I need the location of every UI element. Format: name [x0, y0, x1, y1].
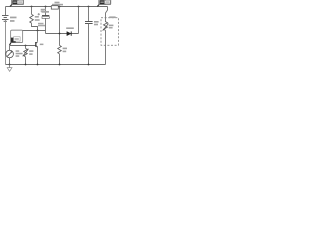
C2 value label	[94, 21, 99, 25]
capacitor C1 electrolytic plus sign	[38, 13, 40, 15]
wire R3 bottom lead	[59, 54, 61, 65]
wire collector drop	[37, 31, 39, 42]
ground	[7, 65, 12, 72]
capacitor C1	[42, 16, 49, 19]
wire trimmer top lead	[25, 46, 27, 49]
trimmer RV1	[23, 48, 29, 56]
resistor R2 (box style on bus)	[51, 6, 58, 9]
wire C2 bottom lead	[88, 24, 90, 65]
node junction wireB x R3	[59, 33, 61, 35]
wire C2 top lead	[88, 7, 90, 22]
node junction trimmer top	[25, 45, 27, 47]
label box MIC (value label with dark tag)	[10, 30, 23, 45]
text under bus left of C1	[41, 9, 46, 12]
node junction diode net right	[78, 6, 80, 8]
R3 value label	[63, 48, 67, 53]
wire C1 top lead	[45, 7, 47, 16]
photoresistor LDR1	[103, 22, 109, 31]
battery B1	[2, 16, 9, 22]
wire R3 vertical net	[59, 7, 61, 46]
wire R1 bottom lead	[32, 23, 38, 30]
LDR1 value label	[109, 25, 114, 27]
wire emitter down	[37, 47, 39, 64]
node junction C2 top	[88, 6, 90, 8]
node junction R1 top	[31, 6, 33, 8]
text label above wire A	[38, 23, 45, 27]
wire base	[10, 45, 36, 47]
node junction C1 top	[45, 6, 47, 8]
Q1 label	[40, 44, 44, 46]
net flag top-right	[97, 0, 111, 7]
node junction R3 top	[59, 6, 61, 8]
wire right riser from bus	[106, 7, 108, 23]
resistor R3	[58, 45, 62, 53]
node junction emitter bottom	[37, 64, 39, 66]
node junction C2 bottom	[88, 64, 90, 66]
wire B diode net	[46, 33, 79, 35]
R1 value label	[35, 16, 40, 21]
R2 labels above	[52, 2, 63, 6]
wire R1 top lead	[31, 7, 33, 15]
wire A collector net	[23, 30, 46, 32]
LDR1 name label	[109, 16, 115, 18]
wire left rail from bus to battery	[5, 7, 7, 16]
wire LDR bottom lead to bus	[105, 30, 107, 64]
microphone MIC1	[6, 46, 14, 58]
capacitor C2	[85, 22, 93, 24]
wire battery negative down left rail	[5, 20, 7, 65]
transistor Q1	[36, 42, 38, 48]
D1 value label	[66, 27, 74, 29]
net flag VCC top-left	[10, 0, 24, 7]
node junction R3 bottom	[59, 64, 61, 66]
wire C1 bottom lead down to wire B	[45, 18, 47, 33]
battery value label	[10, 17, 17, 22]
node junction collector	[37, 30, 39, 32]
wire top bus	[6, 6, 108, 8]
node junction trimmer bottom	[25, 64, 27, 66]
wire mic bottom lead	[9, 58, 11, 65]
C1 value label	[42, 11, 50, 13]
MIC1 text labels	[16, 50, 23, 57]
wire bottom bus	[6, 64, 106, 66]
diode D1	[67, 31, 71, 35]
node junction ground	[9, 64, 11, 66]
wire diode net riser	[78, 7, 80, 34]
resistor R1	[30, 14, 34, 23]
dashed enclosure box	[101, 18, 119, 45]
RV1 value label	[29, 50, 33, 55]
wire trimmer bottom lead	[25, 57, 27, 65]
